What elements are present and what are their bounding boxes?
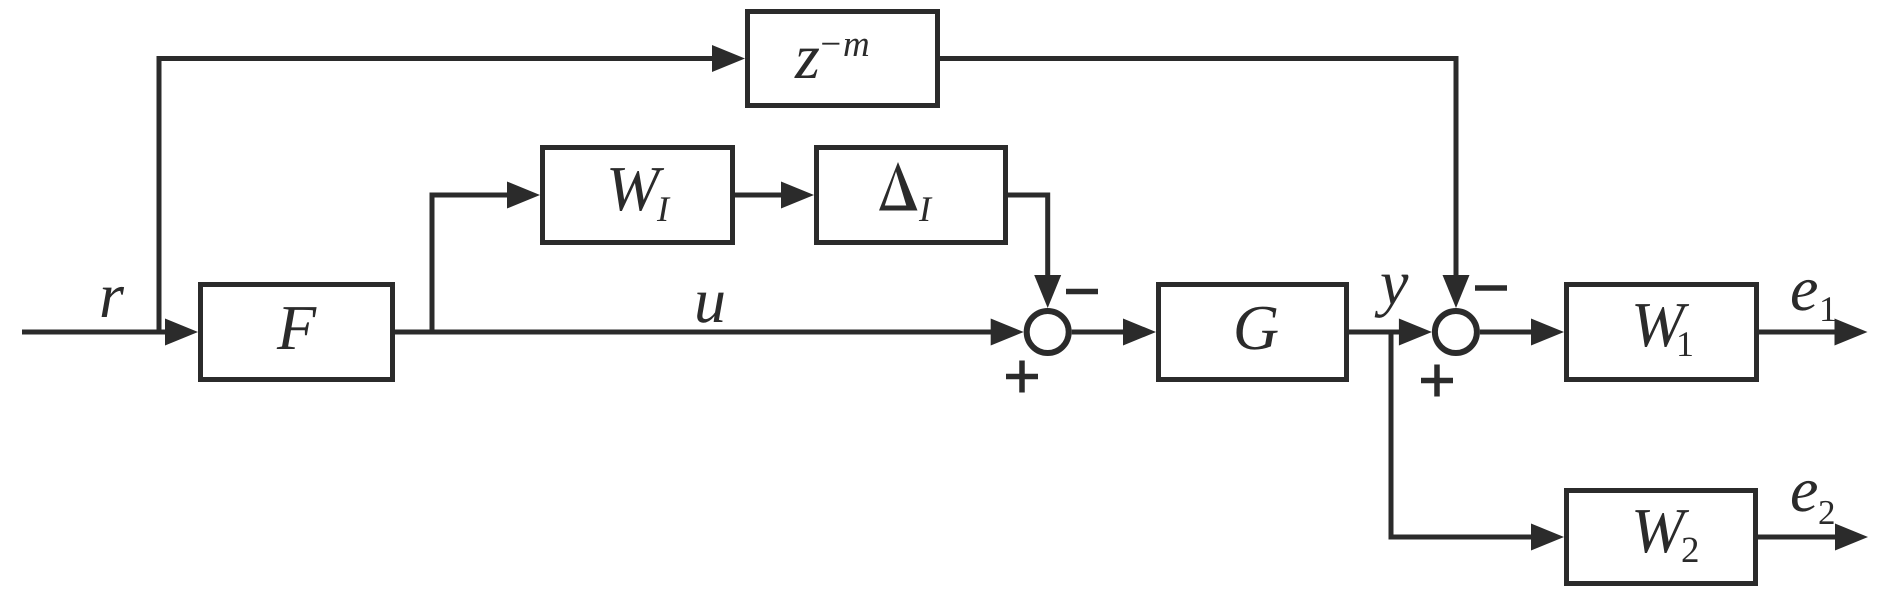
sign minus at summing junction 2 bbox=[1475, 285, 1507, 291]
wire: branch from y down and right into W_2 bbox=[1391, 332, 1533, 537]
wire: branch from r up and across to z^-m bbox=[159, 59, 715, 335]
block z^-m bbox=[748, 12, 938, 106]
summing junction 2 bbox=[1435, 311, 1477, 353]
wire: W_2 output arrow e_2 bbox=[1758, 535, 1836, 540]
wire: branch from u up into W_I bbox=[432, 195, 509, 335]
label e_1 bbox=[1792, 280, 1817, 311]
label e_2 bbox=[1792, 481, 1817, 512]
block F bbox=[201, 285, 393, 380]
sign minus at summing junction 1 bbox=[1066, 289, 1098, 295]
wire: z^-m output right then down into summing junction 2 bbox=[940, 59, 1456, 278]
wire: arrowhead into F bbox=[165, 319, 198, 346]
wire: W_I output into Delta_I bbox=[735, 193, 783, 198]
wire: W_1 output arrow e_1 bbox=[1759, 330, 1835, 335]
wire: summing junction 1 into G bbox=[1072, 330, 1125, 335]
block W_1 bbox=[1567, 285, 1757, 380]
wire: G output y into summing junction 2 bbox=[1349, 330, 1400, 335]
wire: F output line u into summing junction 1 bbox=[395, 330, 993, 335]
wire: arrowhead into z^-m bbox=[712, 45, 745, 72]
wire: summing junction 2 into W_1 bbox=[1480, 330, 1533, 335]
sign plus at summing junction 2 bbox=[1421, 365, 1453, 397]
block G bbox=[1159, 285, 1347, 380]
block Delta_I bbox=[817, 148, 1006, 243]
label u bbox=[697, 293, 724, 323]
wire: Delta_I output right then down into summing junction 1 bbox=[1008, 195, 1048, 277]
sign plus at summing junction 1 bbox=[1006, 361, 1038, 393]
wire: input line carrying r bbox=[22, 330, 170, 335]
block W_2 bbox=[1567, 491, 1756, 584]
label y bbox=[1375, 275, 1409, 318]
label r bbox=[102, 287, 125, 317]
summing junction 1 bbox=[1027, 311, 1069, 353]
block W_I bbox=[543, 148, 733, 243]
